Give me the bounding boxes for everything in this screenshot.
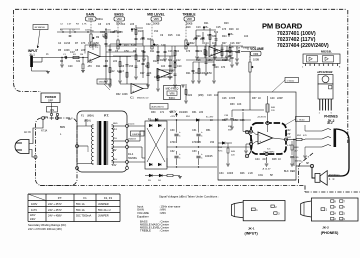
svg-text:1K: 1K bbox=[210, 119, 213, 122]
svg-text:C26: C26 bbox=[222, 97, 227, 100]
svg-text:56K: 56K bbox=[228, 130, 232, 132]
svg-text:C30: C30 bbox=[170, 129, 175, 132]
svg-text:C28: C28 bbox=[229, 46, 234, 49]
svg-text:47K: 47K bbox=[81, 42, 86, 45]
svg-text:C34: C34 bbox=[219, 172, 224, 175]
svg-text:-: - bbox=[89, 52, 90, 56]
svg-text:1M: 1M bbox=[80, 54, 83, 56]
svg-text:+ Globe: + Globe bbox=[297, 119, 306, 121]
svg-text:240V: 240V bbox=[30, 219, 36, 221]
svg-text:221: 221 bbox=[198, 50, 203, 53]
svg-text:+: + bbox=[158, 74, 160, 78]
svg-text:104: 104 bbox=[161, 65, 166, 68]
svg-text:1/50J: 1/50J bbox=[243, 48, 248, 50]
svg-text:R31: R31 bbox=[192, 111, 197, 114]
svg-text:-: - bbox=[158, 69, 159, 73]
svg-text:AT 3A: AT 3A bbox=[41, 130, 48, 133]
svg-text:471: 471 bbox=[160, 111, 165, 114]
svg-text:ON: ON bbox=[50, 108, 54, 112]
svg-text:55C 1A: 55C 1A bbox=[76, 208, 85, 212]
svg-text:S5295G: S5295G bbox=[128, 157, 137, 160]
svg-text:JK-2: JK-2 bbox=[322, 226, 329, 230]
svg-text:FS100mm: FS100mm bbox=[329, 175, 340, 177]
svg-text:C36: C36 bbox=[240, 119, 245, 122]
svg-text:C12: C12 bbox=[110, 70, 115, 73]
svg-text:150: 150 bbox=[210, 141, 215, 144]
svg-text:682: 682 bbox=[168, 59, 173, 62]
svg-text:50KA: 50KA bbox=[97, 17, 104, 21]
svg-text:393: 393 bbox=[147, 38, 152, 41]
svg-text:8.2K: 8.2K bbox=[131, 44, 136, 47]
svg-text:55C 2A x 2: 55C 2A x 2 bbox=[98, 208, 111, 212]
svg-text:.047: .047 bbox=[262, 158, 267, 161]
svg-text:1K: 1K bbox=[236, 28, 239, 31]
svg-text:55C T500mA: 55C T500mA bbox=[76, 214, 92, 218]
svg-text:JUMPER: JUMPER bbox=[132, 134, 141, 136]
svg-text:OFF: OFF bbox=[48, 99, 54, 103]
svg-text:GAIN: GAIN bbox=[86, 12, 95, 16]
svg-text:223: 223 bbox=[130, 23, 135, 26]
svg-text:R24: R24 bbox=[222, 35, 227, 38]
svg-text:M5218L: M5218L bbox=[321, 50, 332, 54]
svg-text:220V: 220V bbox=[30, 215, 36, 217]
svg-text:C26: C26 bbox=[207, 34, 212, 37]
svg-text:1/50: 1/50 bbox=[233, 119, 238, 122]
svg-text:24V + 458V: 24V + 458V bbox=[48, 214, 62, 218]
svg-text:R11: R11 bbox=[150, 50, 155, 53]
svg-text:C10: C10 bbox=[110, 31, 115, 34]
svg-text:VR6: VR6 bbox=[169, 92, 175, 96]
svg-text:R37: R37 bbox=[252, 97, 257, 100]
svg-text:104: 104 bbox=[244, 35, 249, 38]
svg-text:AC IN: AC IN bbox=[24, 131, 31, 134]
svg-text:C19: C19 bbox=[207, 94, 212, 97]
svg-text:IC1: IC1 bbox=[130, 97, 134, 100]
svg-text:R52: R52 bbox=[222, 119, 227, 122]
svg-text:10K: 10K bbox=[147, 72, 152, 75]
svg-text:24V x 2 P0.00V 200mA (19V): 24V x 2 P0.00V 200mA (19V) bbox=[28, 227, 62, 231]
svg-text:F1: F1 bbox=[83, 196, 87, 200]
svg-text:D1-D4: D1-D4 bbox=[128, 124, 135, 126]
svg-text:Equalizer: Equalizer bbox=[137, 214, 149, 218]
svg-text:+20V: +20V bbox=[170, 116, 176, 118]
svg-text:473: 473 bbox=[222, 28, 227, 31]
svg-text:VR3: VR3 bbox=[253, 52, 259, 56]
svg-text:C32: C32 bbox=[170, 150, 175, 153]
svg-text:R25: R25 bbox=[222, 59, 227, 62]
svg-text:C13: C13 bbox=[196, 26, 201, 29]
svg-text:TREBLE: TREBLE bbox=[182, 12, 196, 16]
svg-text:117V: 117V bbox=[31, 208, 37, 212]
svg-text:0-11: 0-11 bbox=[112, 128, 117, 131]
svg-text:P.T.: P.T. bbox=[104, 114, 109, 118]
svg-text:473: 473 bbox=[106, 23, 111, 26]
svg-text:1/50: 1/50 bbox=[207, 72, 212, 75]
svg-text:3.9K: 3.9K bbox=[161, 44, 166, 47]
svg-text:R15: R15 bbox=[168, 34, 173, 37]
svg-text:TREBLE: TREBLE bbox=[140, 229, 151, 233]
svg-text:R13: R13 bbox=[124, 44, 129, 47]
svg-text:24V: 24V bbox=[112, 164, 117, 167]
svg-text:330: 330 bbox=[212, 35, 217, 38]
svg-text:R27: R27 bbox=[236, 42, 241, 45]
svg-text:BLU: BLU bbox=[113, 159, 118, 161]
svg-text:(A1R)1N4741: (A1R)1N4741 bbox=[152, 106, 165, 109]
svg-text:VOLUME: VOLUME bbox=[250, 47, 264, 51]
svg-text:220P: 220P bbox=[277, 97, 283, 100]
svg-text:(M5A): (M5A) bbox=[87, 115, 94, 118]
svg-text:R48: R48 bbox=[272, 158, 277, 161]
svg-text:470: 470 bbox=[221, 66, 226, 69]
svg-text:-: - bbox=[259, 133, 260, 137]
svg-text:VR2: VR2 bbox=[117, 17, 123, 21]
svg-text:C15: C15 bbox=[216, 26, 221, 29]
svg-text:R12: R12 bbox=[153, 60, 158, 63]
svg-text:-: - bbox=[210, 47, 211, 51]
svg-text:0.47: 0.47 bbox=[70, 51, 75, 54]
svg-text:332: 332 bbox=[76, 60, 81, 63]
svg-text:22P: 22P bbox=[81, 49, 86, 52]
svg-text:C20: C20 bbox=[200, 72, 205, 75]
svg-text:473: 473 bbox=[186, 50, 191, 53]
svg-text:C18: C18 bbox=[228, 50, 233, 53]
svg-text:R18: R18 bbox=[196, 59, 201, 62]
svg-text:100/25: 100/25 bbox=[205, 155, 213, 158]
svg-text:50KB: 50KB bbox=[153, 22, 160, 26]
svg-text:C14: C14 bbox=[140, 38, 145, 41]
svg-text:VR5: VR5 bbox=[154, 17, 160, 21]
svg-text:1/50: 1/50 bbox=[94, 42, 99, 45]
svg-text:+: + bbox=[210, 52, 212, 56]
svg-text:104: 104 bbox=[175, 50, 180, 53]
svg-text:C44: C44 bbox=[255, 158, 260, 161]
svg-text:RED: RED bbox=[290, 170, 295, 173]
svg-text:4.7K: 4.7K bbox=[82, 24, 87, 26]
svg-text:55C 1A: 55C 1A bbox=[76, 202, 85, 206]
svg-text:1N4148: 1N4148 bbox=[99, 82, 107, 84]
svg-text:C16: C16 bbox=[230, 42, 235, 45]
svg-text:1K: 1K bbox=[258, 97, 261, 100]
svg-text:+: + bbox=[89, 57, 91, 61]
svg-text:POWER: POWER bbox=[45, 95, 57, 99]
svg-text:JW METAL: JW METAL bbox=[34, 26, 46, 29]
svg-text:C33: C33 bbox=[192, 150, 197, 153]
svg-text:R16: R16 bbox=[169, 70, 174, 73]
svg-text:: MIN: : MIN bbox=[159, 211, 166, 215]
svg-text:100/50: 100/50 bbox=[295, 161, 302, 163]
svg-text:VR8: VR8 bbox=[187, 17, 193, 21]
svg-text:103: 103 bbox=[212, 42, 217, 45]
svg-text:D1-4: D1-4 bbox=[128, 153, 134, 156]
svg-text:C11: C11 bbox=[176, 34, 181, 37]
svg-text:R27: R27 bbox=[222, 42, 227, 45]
svg-text:50KC: 50KC bbox=[169, 96, 176, 100]
svg-text:R10: R10 bbox=[138, 30, 143, 33]
svg-text:223: 223 bbox=[193, 38, 198, 41]
svg-text:562: 562 bbox=[214, 31, 219, 34]
svg-text:C18: C18 bbox=[154, 76, 159, 79]
svg-text:(M5A): (M5A) bbox=[84, 120, 91, 123]
svg-text:SP: SP bbox=[306, 163, 310, 165]
svg-text:(INPUT): (INPUT) bbox=[245, 232, 259, 236]
svg-text:100K: 100K bbox=[122, 93, 128, 96]
svg-text:JUMPER: JUMPER bbox=[98, 214, 109, 218]
svg-text:: Center: : Center bbox=[159, 229, 169, 233]
svg-text:100V: 100V bbox=[31, 202, 37, 206]
svg-text:uPC1230H2: uPC1230H2 bbox=[317, 70, 333, 74]
svg-text:R29: R29 bbox=[229, 28, 234, 31]
svg-text:50KB: 50KB bbox=[186, 22, 193, 26]
svg-text:47/6.3: 47/6.3 bbox=[117, 70, 124, 73]
svg-text:R22: R22 bbox=[190, 42, 195, 45]
svg-text:+B 28.5V: +B 28.5V bbox=[257, 116, 267, 118]
svg-text:R19: R19 bbox=[168, 76, 173, 79]
svg-text:47P: 47P bbox=[286, 133, 291, 136]
svg-text:BRN: BRN bbox=[60, 126, 65, 129]
svg-text:C12: C12 bbox=[176, 59, 181, 62]
svg-text:C20: C20 bbox=[68, 65, 73, 68]
svg-text:SW: SW bbox=[44, 116, 49, 119]
svg-text:154: 154 bbox=[154, 30, 159, 33]
svg-text:(MR): (MR) bbox=[198, 94, 204, 97]
svg-text:C10: C10 bbox=[177, 65, 182, 68]
svg-text:+: + bbox=[259, 139, 261, 143]
svg-text:R21: R21 bbox=[204, 22, 209, 25]
svg-text:PM BOARD: PM BOARD bbox=[262, 21, 303, 30]
svg-text:R14: R14 bbox=[160, 59, 165, 62]
svg-text:4.7K: 4.7K bbox=[193, 72, 198, 75]
svg-text:Ω: Ω bbox=[333, 179, 335, 181]
svg-text:R25: R25 bbox=[200, 38, 205, 41]
svg-text:10K: 10K bbox=[237, 103, 242, 106]
svg-text:1N4003: 1N4003 bbox=[128, 139, 136, 141]
svg-text:C16: C16 bbox=[168, 50, 173, 53]
svg-text:R17: R17 bbox=[140, 72, 145, 75]
svg-text:100B: 100B bbox=[253, 58, 259, 62]
svg-text:R15: R15 bbox=[154, 44, 159, 47]
svg-text:47/25: 47/25 bbox=[229, 97, 236, 100]
svg-text:0.022: 0.022 bbox=[186, 94, 193, 97]
svg-text:C31: C31 bbox=[192, 129, 197, 132]
svg-text:+15V: +15V bbox=[87, 62, 93, 64]
svg-text:C40: C40 bbox=[270, 97, 275, 100]
svg-text:R23: R23 bbox=[214, 66, 219, 69]
svg-text:MID FREQ: MID FREQ bbox=[166, 87, 179, 91]
svg-text:-: - bbox=[132, 84, 133, 88]
svg-text:Signal Voltages (dBm) Taken Un: Signal Voltages (dBm) Taken Under Condit… bbox=[159, 195, 219, 199]
svg-text:R62: R62 bbox=[116, 93, 121, 96]
svg-text:VR1: VR1 bbox=[88, 17, 94, 21]
svg-text:104: 104 bbox=[214, 94, 219, 97]
svg-text:24V: 24V bbox=[112, 149, 117, 152]
svg-text:-B 14.5V: -B 14.5V bbox=[262, 169, 271, 171]
svg-text:4700/35: 4700/35 bbox=[192, 141, 201, 144]
svg-text:MID LEVEL: MID LEVEL bbox=[147, 12, 165, 16]
svg-text:R30: R30 bbox=[151, 111, 156, 114]
svg-text:F2, F3: F2, F3 bbox=[104, 196, 113, 200]
svg-text:-15V: -15V bbox=[87, 66, 92, 68]
svg-text:R46: R46 bbox=[240, 172, 245, 175]
svg-text:2.2K: 2.2K bbox=[248, 172, 253, 175]
svg-text:473: 473 bbox=[214, 50, 219, 53]
svg-text:C17: C17 bbox=[206, 59, 211, 62]
svg-text:C22: C22 bbox=[186, 42, 191, 45]
svg-text:BLK: BLK bbox=[284, 170, 289, 173]
svg-text:220: 220 bbox=[199, 111, 204, 114]
svg-text:(PHONES): (PHONES) bbox=[321, 231, 339, 235]
svg-text:Secondary Winding Ratings (DC): Secondary Winding Ratings (DC) bbox=[28, 223, 66, 227]
svg-text:24V + 457V: 24V + 457V bbox=[48, 202, 62, 206]
svg-text:C42: C42 bbox=[286, 129, 291, 132]
svg-text:1/50: 1/50 bbox=[124, 50, 129, 53]
svg-text:1 Globe: 1 Globe bbox=[287, 80, 295, 82]
svg-text:56K: 56K bbox=[103, 36, 108, 39]
svg-text:R51: R51 bbox=[206, 129, 211, 132]
svg-text:BASS: BASS bbox=[114, 12, 124, 16]
svg-text:5P: 5P bbox=[270, 174, 273, 177]
svg-text:M5218L 1/2: M5218L 1/2 bbox=[137, 98, 149, 100]
svg-text:10/16: 10/16 bbox=[64, 42, 71, 45]
svg-text:1N4003: 1N4003 bbox=[179, 111, 188, 114]
svg-text:153: 153 bbox=[129, 65, 134, 68]
svg-text:100/16: 100/16 bbox=[85, 30, 92, 32]
svg-text:NTC: NTC bbox=[218, 151, 223, 153]
svg-text:C22: C22 bbox=[146, 23, 151, 26]
svg-text:R21: R21 bbox=[186, 72, 191, 75]
svg-text:4700: 4700 bbox=[170, 141, 176, 144]
svg-text:AC: AC bbox=[68, 118, 72, 121]
svg-text:uPC1230H2: uPC1230H2 bbox=[263, 152, 275, 154]
svg-text:18P: 18P bbox=[117, 31, 122, 34]
svg-text:222: 222 bbox=[113, 60, 118, 63]
svg-text:R11: R11 bbox=[96, 65, 101, 68]
svg-text:JK-2: JK-2 bbox=[328, 119, 335, 123]
svg-text:P.T.: P.T. bbox=[58, 196, 63, 200]
svg-text:R19: R19 bbox=[186, 26, 191, 29]
svg-text:RED: RED bbox=[113, 123, 118, 125]
svg-text:C14: C14 bbox=[204, 42, 209, 45]
svg-text:JK-1: JK-1 bbox=[248, 226, 255, 230]
svg-text:24V + 457V: 24V + 457V bbox=[48, 208, 62, 212]
svg-text:70237404 (220V/240V): 70237404 (220V/240V) bbox=[277, 43, 329, 49]
svg-text:100/6: 100/6 bbox=[227, 172, 234, 175]
svg-text:JUMPER: JUMPER bbox=[98, 202, 109, 206]
svg-text:R33: R33 bbox=[230, 103, 235, 106]
svg-text:CN1: CN1 bbox=[258, 174, 264, 177]
svg-text:1K: 1K bbox=[103, 65, 106, 68]
svg-text:R23: R23 bbox=[224, 22, 229, 25]
svg-text:+: + bbox=[132, 89, 134, 93]
